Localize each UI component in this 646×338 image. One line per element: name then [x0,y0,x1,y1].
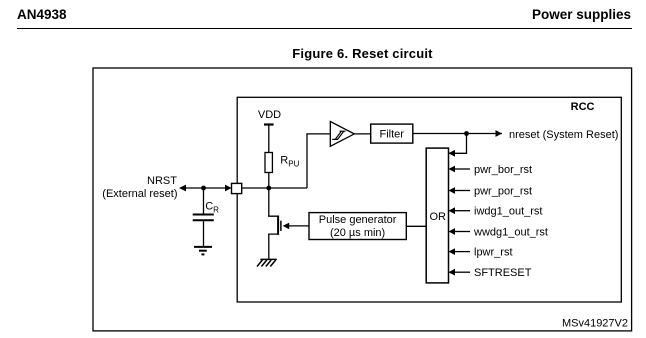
transistor Q1 source wire [269,234,278,259]
svg-text:VDD: VDD [258,109,281,121]
svg-text:(External reset): (External reset) [102,188,177,200]
wire resistor to node [268,173,270,189]
junction dot at pull-up node [266,186,271,191]
arrow into OR from nreset (left) [449,150,456,157]
RCC box [237,97,621,302]
wire pwr_bor_rst [455,168,470,170]
pulse generator box [309,213,406,240]
svg-text:nreset (System Reset): nreset (System Reset) [509,129,618,141]
arrow wwdg1_out_rst [449,228,456,235]
capacitor CR wire [203,188,205,214]
NRST pin pad [232,183,242,193]
wire capacitor to ground [203,221,205,246]
svg-text:RCC: RCC [571,101,595,113]
OR gate box [426,148,448,283]
wire pad to pull-up node [242,187,307,189]
VDD supply bar [264,123,274,125]
wire pulse generator to OR [406,225,426,227]
transistor Q1 channel [277,216,279,235]
schmitt trigger buffer U1 [330,122,354,147]
transistor Q1 gate bar [280,221,282,231]
junction dot at capacitor tap [201,186,206,191]
arrow SFTRESET [449,269,456,276]
svg-text:CR: CR [205,201,219,215]
header right: Power supplies [532,7,631,22]
wire VDD to resistor [268,125,270,153]
wire iwdg1_out_rst [455,210,470,212]
svg-text:iwdg1_out_rst: iwdg1_out_rst [474,206,543,218]
wire pwr_por_rst [455,190,470,192]
arrow pwr_bor_rst [449,166,456,173]
wire filter to nreset arrow [413,133,502,135]
arrow iwdg1_out_rst [449,207,456,214]
svg-text:pwr_bor_rst: pwr_bor_rst [474,164,532,176]
wire SFTRESET [455,271,470,273]
schmitt hysteresis symbol [332,131,345,139]
capacitor CR plates [193,214,214,216]
wire schmitt to filter [354,133,370,135]
ground (transistor, hatched) [257,259,277,266]
svg-text:pwr_por_rst: pwr_por_rst [474,185,532,197]
filter box [371,124,413,143]
wire pulse generator to gate [289,225,310,227]
transistor Q1 drain wire [269,188,278,216]
arrow into pad (right) [225,185,232,192]
svg-text:RPU: RPU [280,155,299,169]
arrow lpwr_rst [449,248,456,255]
svg-text:(20 µs min): (20 µs min) [330,227,385,239]
svg-text:NRST: NRST [147,175,177,187]
junction dot nreset [464,131,469,136]
ground (capacitor) [194,247,212,255]
wire node up to schmitt input [307,134,330,188]
arrow to nreset (right) [496,130,503,137]
svg-text:Pulse generator: Pulse generator [319,214,397,226]
svg-text:MSv41927V2: MSv41927V2 [562,318,628,330]
header rule [17,28,632,29]
svg-text:OR: OR [429,211,446,223]
svg-text:lpwr_rst: lpwr_rst [474,246,513,258]
wire wwdg1_out_rst [455,231,470,233]
wire NRST line [185,187,227,189]
svg-text:SFTRESET: SFTRESET [474,267,532,279]
arrow to NRST (left) [179,185,186,192]
header left: AN4938 [17,7,67,22]
outer figure border [93,68,632,331]
svg-text:wwdg1_out_rst: wwdg1_out_rst [473,226,548,238]
arrow pwr_por_rst [449,187,456,194]
figure title [93,46,632,61]
wire lpwr_rst [455,251,470,253]
resistor RPU body [265,153,272,173]
wire nreset junction down to OR [448,134,467,154]
arrow into gate (left) [283,223,290,230]
svg-text:Filter: Filter [379,129,404,141]
